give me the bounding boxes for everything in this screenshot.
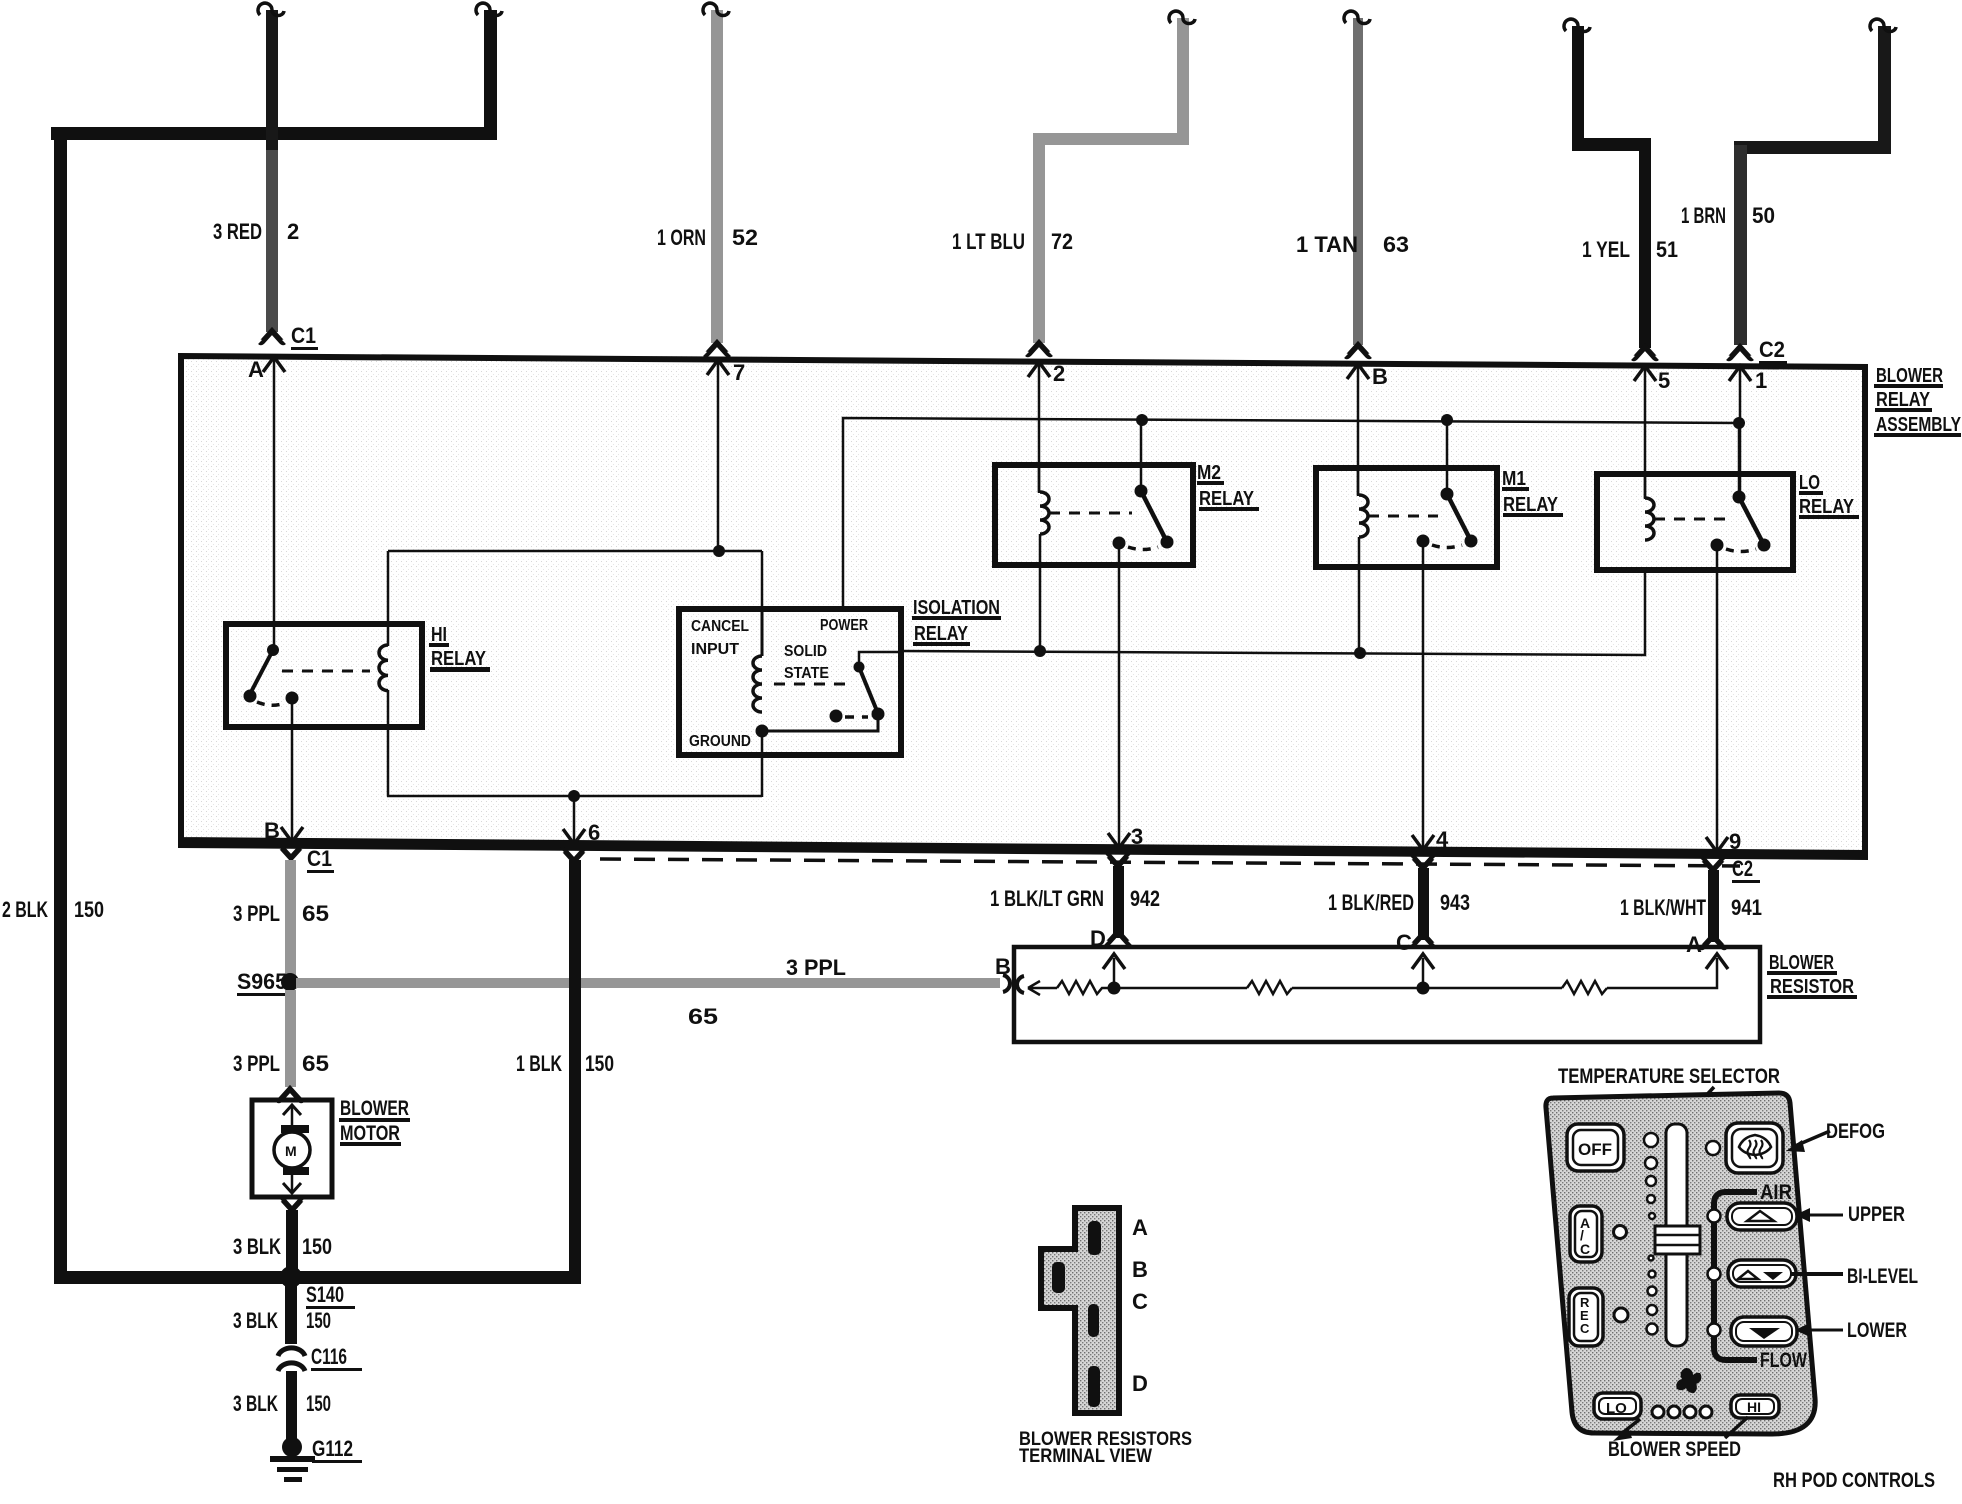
svg-text:INPUT: INPUT [691,641,739,658]
svg-text:943: 943 [1440,890,1470,915]
pin 3 (bottom) [1108,824,1143,849]
BI-LEVEL button [1728,1260,1796,1287]
wire 3 PPL 65 (C1 to S965) [285,860,296,978]
wire 3 PPL 65 (S965 to blower motor) [285,990,296,1087]
svg-text:1 BRN: 1 BRN [1681,203,1726,228]
svg-text:DEFOG: DEFOG [1826,1120,1885,1143]
pin A (top) [248,357,285,650]
splice S965 [237,969,299,996]
dashed connector line C1/C2 below box [600,859,1740,866]
fan icon [1676,1368,1701,1393]
label BI-LEVEL with pointer [1790,1265,1918,1288]
svg-text:C2: C2 [1732,856,1753,881]
label LOWER with pointer [1795,1319,1907,1342]
svg-text:M1: M1 [1502,468,1526,490]
svg-text:LO: LO [1799,472,1820,494]
isolation relay [679,609,901,797]
connector C116 [278,1344,362,1371]
label 1 LT BLU 72 [952,229,1073,254]
label 3 BLK 150 [233,1308,331,1333]
svg-text:BI-LEVEL: BI-LEVEL [1847,1265,1918,1288]
connector C1 (top) [291,323,318,350]
svg-text:LO: LO [1606,1400,1627,1417]
label M1 RELAY [1502,468,1563,517]
svg-text:C: C [1580,1241,1590,1257]
svg-text:C2: C2 [1759,337,1785,362]
svg-text:3 PPL: 3 PPL [233,901,280,926]
RH pod control panel body [1546,1093,1815,1434]
svg-text:3 BLK: 3 BLK [233,1308,278,1333]
pin 2 (top) [1028,361,1065,492]
svg-text:3 RED: 3 RED [213,219,262,244]
M2 relay [995,420,1193,848]
label BLOWER MOTOR [339,1097,410,1146]
AIR/FLOW bracket [1714,1181,1807,1372]
wire 3 RED 2 [258,3,284,342]
pin 5 (top) [1634,366,1670,498]
connector C2 (top) [1759,337,1787,364]
wire 1 TAN 63 [1344,11,1370,356]
label M2 RELAY [1197,462,1259,511]
svg-text:9: 9 [1729,829,1741,854]
svg-text:RELAY: RELAY [431,648,487,670]
label 2 BLK 150 [2,897,104,922]
pin 9 (bottom) [1706,829,1741,854]
svg-text:SOLID: SOLID [784,643,827,660]
isolation relay terminal texts [689,617,868,750]
label 1 ORN 52 [657,225,758,250]
blower relay assembly box [178,353,1868,860]
svg-text:C1: C1 [307,846,332,871]
svg-text:BLOWER SPEED: BLOWER SPEED [1608,1438,1741,1461]
svg-text:B: B [1132,1257,1148,1282]
svg-text:UPPER: UPPER [1848,1203,1905,1226]
label 1 BLK/RED 943 [1328,890,1470,955]
wire 1 YEL 51 [1564,19,1657,358]
svg-text:1: 1 [1755,368,1767,393]
pin B (bottom) [264,818,303,843]
svg-text:1 BLK/WHT: 1 BLK/WHT [1620,895,1706,920]
svg-text:FLOW: FLOW [1760,1349,1807,1372]
svg-text:941: 941 [1731,895,1762,920]
svg-text:1 BLK/LT GRN: 1 BLK/LT GRN [990,886,1104,911]
LOWER button [1731,1317,1797,1346]
ground net wires (HI coil / isolation coil to pin 6) [387,545,762,844]
pointer line temperature selector to slider [1676,1087,1714,1128]
bracket indicator dots [1706,1141,1721,1337]
svg-text:65: 65 [688,1004,718,1029]
svg-text:3 PPL: 3 PPL [233,1051,280,1076]
label 3 PPL 65 [233,1051,329,1076]
svg-text:RH POD CONTROLS: RH POD CONTROLS [1773,1469,1935,1492]
label 1 BLK 150 [516,1051,614,1076]
slider knob [1655,1226,1700,1254]
terminal view pin labels [1132,1215,1148,1396]
svg-text:150: 150 [306,1308,331,1333]
resistor network wires [1028,958,1717,995]
svg-text:1 ORN: 1 ORN [657,225,706,250]
label HI RELAY [429,624,490,672]
wire 1 BLK/RED 943 [1411,857,1435,946]
svg-text:6: 6 [588,820,600,845]
svg-text:D: D [1132,1371,1148,1396]
svg-text:M: M [285,1143,297,1159]
svg-text:2: 2 [287,219,299,244]
wire 1 LT BLU 72 [1027,11,1195,354]
blower resistor box [995,947,1760,1042]
svg-text:LOWER: LOWER [1847,1319,1907,1342]
svg-text:3 BLK: 3 BLK [233,1234,281,1259]
svg-text:50: 50 [1752,203,1775,228]
svg-text:C: C [1132,1289,1148,1314]
svg-text:S965: S965 [237,969,287,994]
label 1 TAN 63 [1296,232,1409,257]
svg-text:1 TAN: 1 TAN [1296,232,1358,257]
HI relay [226,624,422,842]
indicator dots left of slider [1644,1133,1658,1335]
pin 6 (bottom) [563,820,600,845]
A/C button [1570,1206,1602,1262]
svg-text:CANCEL: CANCEL [691,618,749,635]
label 3 PPL / 65 (horizontal run) [688,955,846,1029]
svg-text:1 LT BLU: 1 LT BLU [952,229,1025,254]
label 3 RED 2 [213,219,299,244]
svg-text:150: 150 [74,897,104,922]
svg-text:63: 63 [1383,232,1409,257]
svg-text:52: 52 [732,225,758,250]
resistor network junctions and arrows [1103,954,1728,995]
svg-text:A: A [1132,1215,1148,1240]
wire 1 BLK/WHT 941 [1701,859,1725,948]
svg-text:ISOLATION: ISOLATION [913,597,1000,619]
label BLOWER RESISTOR [1767,952,1857,999]
svg-text:B: B [1372,364,1388,389]
label ISOLATION RELAY [912,597,1001,646]
svg-text:RELAY: RELAY [914,623,969,645]
svg-text:51: 51 [1656,237,1678,262]
M1 relay [1316,420,1497,850]
label LO RELAY [1799,472,1859,519]
svg-text:5: 5 [1658,368,1670,393]
label 1 BLK/LT GRN 942 [990,886,1160,951]
svg-text:M2: M2 [1197,462,1221,484]
svg-text:1 BLK/RED: 1 BLK/RED [1328,890,1414,915]
larger dots left [1614,1226,1629,1323]
svg-text:STATE: STATE [784,665,829,682]
svg-text:RELAY: RELAY [1503,494,1559,516]
svg-text:150: 150 [302,1234,332,1259]
label 1 YEL 51 [1582,237,1678,262]
connector C1 (bottom) [279,846,334,873]
svg-text:TEMPERATURE SELECTOR: TEMPERATURE SELECTOR [1558,1065,1780,1088]
svg-text:RELAY: RELAY [1199,488,1255,510]
svg-text:ASSEMBLY: ASSEMBLY [1876,414,1962,436]
OFF button [1567,1124,1624,1171]
blower resistors terminal view connector [1041,1208,1119,1413]
svg-text:AIR: AIR [1760,1181,1792,1204]
svg-text:150: 150 [306,1391,331,1416]
svg-text:3 BLK: 3 BLK [233,1391,278,1416]
svg-text:OFF: OFF [1578,1140,1612,1159]
svg-text:C1: C1 [291,323,316,348]
temperature slider track [1666,1124,1687,1346]
svg-text:G112: G112 [312,1436,353,1461]
svg-text:3 PPL: 3 PPL [786,955,846,980]
svg-text:S140: S140 [306,1282,344,1307]
blower motor [252,1089,332,1210]
wire 1 BRN 50 [1728,19,1896,358]
HI button [1731,1395,1779,1418]
coil return bus wire (isolation output to M2/M1/LO coils) [901,570,1645,659]
ground G112 [270,1436,362,1482]
label 3 BLK 150 [233,1391,331,1416]
svg-text:65: 65 [302,901,329,926]
svg-text:A: A [248,357,264,382]
wire 3 PPL 65 (S965 to blower resistor B) [296,975,1010,992]
svg-text:POWER: POWER [820,617,868,634]
svg-text:4: 4 [1436,827,1449,852]
power bus wire (isolation POWER to relays / pin 1) [843,414,1745,610]
svg-text:65: 65 [302,1051,329,1076]
wire 3 BLK 150 (motor to S140) [286,1210,298,1276]
pin B top [1347,364,1388,495]
label DEFOG with pointer [1786,1120,1885,1152]
svg-text:B: B [264,818,280,843]
svg-text:2 BLK: 2 BLK [2,897,48,922]
label 3 PPL 65 [233,901,329,926]
svg-text:GROUND: GROUND [689,733,751,750]
svg-text:C: C [1396,930,1412,955]
svg-text:BLOWER: BLOWER [1769,952,1834,974]
svg-text:A: A [1686,932,1702,957]
pin 1 (top) [1729,366,1767,497]
svg-text:RELAY: RELAY [1876,389,1931,411]
svg-text:C116: C116 [311,1344,347,1369]
svg-text:7: 7 [733,360,745,385]
pin 4 (bottom) [1412,827,1449,852]
svg-text:942: 942 [1130,886,1160,911]
svg-text:HI: HI [1747,1399,1761,1415]
svg-text:BLOWER: BLOWER [340,1097,409,1120]
wire 2 BLK 150 (left ground loop) [51,3,581,1284]
UPPER button [1727,1203,1797,1230]
svg-text:1 YEL: 1 YEL [1582,237,1630,262]
wire 1 BLK/LT GRN 942 [1106,855,1130,944]
pin 7 (top) [707,360,745,551]
label 3 BLK 150 [233,1234,332,1259]
label UPPER with pointer [1795,1203,1905,1226]
svg-text:C: C [1580,1321,1590,1336]
svg-text:TERMINAL VIEW: TERMINAL VIEW [1019,1446,1152,1467]
svg-text:72: 72 [1051,229,1073,254]
wire 3 BLK 150 (C116 to G112) [286,1371,297,1441]
label BLOWER SPEED with pointers [1608,1417,1748,1461]
wire 1 BLK 150 (pin 6 to ground run) [562,850,586,1281]
svg-text:2: 2 [1053,361,1065,386]
svg-text:BLOWER: BLOWER [1876,365,1943,387]
svg-text:3: 3 [1131,824,1143,849]
svg-text:RELAY: RELAY [1799,496,1855,518]
svg-text:B: B [995,954,1011,979]
svg-text:HI: HI [431,624,447,646]
svg-text:RESISTOR: RESISTOR [1770,976,1854,998]
svg-text:150: 150 [585,1051,614,1076]
connector C2 (bottom) [1732,856,1760,883]
label 1 BLK/WHT 941 [1620,895,1762,957]
REC button [1569,1288,1603,1346]
label BLOWER RESISTORS TERMINAL VIEW [1019,1429,1192,1467]
splice S140 [280,1266,355,1344]
LO relay [1597,423,1793,852]
label BLOWER RELAY ASSEMBLY [1874,365,1962,437]
svg-text:1 BLK: 1 BLK [516,1051,562,1076]
wire 1 ORN 52 [703,3,729,354]
LO button [1594,1393,1641,1419]
blower speed indicator dots [1652,1406,1712,1418]
label 1 BRN 50 [1681,203,1775,228]
svg-text:MOTOR: MOTOR [340,1122,400,1145]
DEFOG button [1726,1123,1783,1173]
